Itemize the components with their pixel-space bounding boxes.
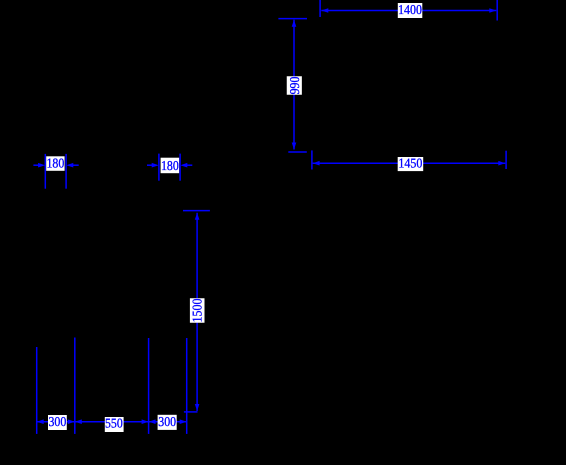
svg-text:1400: 1400 bbox=[398, 2, 422, 17]
dimension 550 arrow right bbox=[142, 419, 149, 424]
dimension 180 second label bbox=[161, 158, 180, 174]
bottom row extension line 4 bbox=[186, 338, 188, 434]
svg-text:1450: 1450 bbox=[398, 155, 422, 170]
dimension 300 left line bbox=[37, 421, 75, 423]
dimension 1450 extension line right bbox=[505, 151, 507, 169]
dimension 550 line bbox=[75, 421, 149, 423]
dimension 1400 label bbox=[398, 2, 423, 18]
dimension 1400 extension line right bbox=[496, 0, 498, 21]
svg-text:550: 550 bbox=[105, 416, 123, 431]
dimension 1400 extension line left bbox=[319, 0, 321, 17]
dimension 990 arrow bottom bbox=[292, 143, 297, 150]
dimension 300 left arrow right bbox=[68, 419, 75, 424]
bottom row extension line 3 bbox=[148, 338, 150, 434]
dimension 990 arrow top bbox=[292, 20, 297, 27]
dimension 300 right label bbox=[158, 414, 177, 430]
dimension 180 first arrow right bbox=[66, 163, 73, 168]
dimension 1500 line bbox=[196, 213, 198, 411]
dimension 300 right arrow right bbox=[180, 419, 187, 424]
bottom row extension line 2 bbox=[74, 338, 76, 434]
dimension 180 first outside segment left bbox=[33, 164, 38, 166]
dimension 550 arrow left bbox=[75, 419, 82, 424]
svg-text:300: 300 bbox=[158, 414, 176, 429]
dimension 1450 extension line left bbox=[311, 150, 313, 169]
dimension 180 second extension line left bbox=[158, 154, 160, 181]
svg-text:990: 990 bbox=[287, 76, 302, 94]
dimension 300 right arrow left bbox=[149, 419, 156, 424]
dimension 1500 extension line bottom bbox=[184, 411, 198, 413]
dimension 180 first extension line right bbox=[65, 154, 67, 189]
dimension 990 line bbox=[293, 20, 295, 150]
dimension 180 second outside segment left bbox=[147, 164, 152, 166]
dimension 1450 label bbox=[398, 155, 424, 171]
dimension 550 label bbox=[105, 416, 124, 433]
dimension 990 extension line top bbox=[278, 18, 307, 20]
dimension 180 second extension line right bbox=[179, 154, 181, 181]
dimension 180 first outside segment right bbox=[73, 164, 79, 166]
dimension 1500 arrow bottom bbox=[195, 404, 200, 411]
svg-text:1500: 1500 bbox=[190, 298, 205, 322]
dimension 1500 arrow top bbox=[195, 213, 200, 220]
dimension 300 left label bbox=[48, 414, 67, 430]
dimension 1450 line bbox=[313, 162, 506, 164]
dimension 1450 arrow left bbox=[313, 161, 320, 166]
dimension 1500 label bbox=[190, 298, 205, 323]
bottom row extension line 1 bbox=[36, 347, 38, 434]
dimension 1500 extension line top bbox=[183, 210, 210, 212]
dimension 1400 arrow left bbox=[321, 8, 328, 13]
svg-text:180: 180 bbox=[161, 158, 179, 173]
dimension 180 first label bbox=[46, 156, 64, 171]
dimension 1400 arrow right bbox=[489, 8, 496, 13]
dimension 180 first extension line left bbox=[44, 154, 46, 189]
dimension 1450 arrow right bbox=[498, 161, 505, 166]
dimension 300 left arrow left bbox=[37, 419, 44, 424]
svg-text:300: 300 bbox=[49, 414, 67, 429]
dimension 180 first arrow left bbox=[38, 163, 45, 168]
dimension 990 label bbox=[287, 76, 302, 95]
dimension 180 second arrow right bbox=[180, 163, 187, 168]
dimension 180 second outside segment right bbox=[186, 164, 192, 166]
dimension 300 right line bbox=[149, 421, 187, 423]
dimension 990 extension line bottom bbox=[288, 151, 307, 153]
svg-text:180: 180 bbox=[47, 156, 65, 171]
dimension 180 second arrow left bbox=[152, 163, 159, 168]
dimension 1400 line bbox=[321, 10, 496, 12]
